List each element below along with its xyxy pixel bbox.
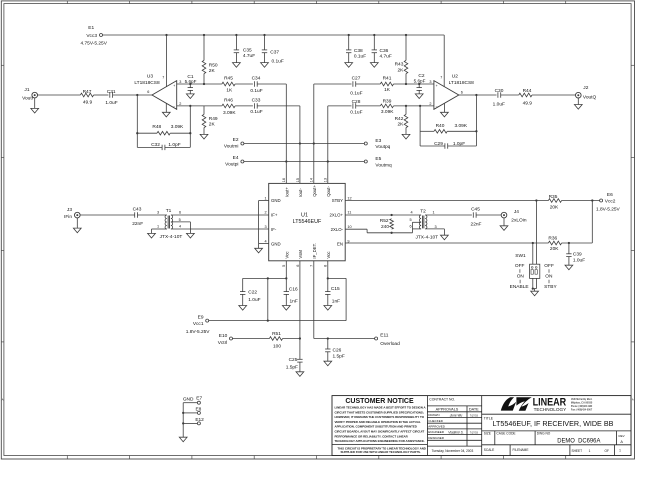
svg-text:Vcc: Vcc xyxy=(326,251,331,259)
svg-text:Vctrl: Vctrl xyxy=(218,340,228,346)
svg-text:C29: C29 xyxy=(434,141,443,147)
svg-text:R39: R39 xyxy=(383,98,392,104)
svg-text:1nF: 1nF xyxy=(332,298,340,304)
svg-text:HOWEVER, IT REMAINS THE CUSTOM: HOWEVER, IT REMAINS THE CUSTOMER’S RESPO… xyxy=(335,415,425,419)
svg-text:2K: 2K xyxy=(209,121,216,127)
svg-text:C39: C39 xyxy=(573,252,582,258)
svg-text:1.0pF: 1.0pF xyxy=(453,141,465,147)
svg-text:7/17/03: 7/17/03 xyxy=(470,414,479,417)
svg-text:1.0uF: 1.0uF xyxy=(105,100,117,106)
svg-text:DRAWN: DRAWN xyxy=(428,413,439,417)
svg-text:5.6pF: 5.6pF xyxy=(185,79,197,84)
svg-text:SHEET: SHEET xyxy=(572,449,583,453)
svg-text:0.1uF: 0.1uF xyxy=(350,90,362,96)
svg-text:0.1uF: 0.1uF xyxy=(272,58,284,64)
svg-text:E3: E3 xyxy=(375,138,381,144)
svg-text:OFF: OFF xyxy=(515,263,525,269)
svg-text:Vladimir S.: Vladimir S. xyxy=(448,431,464,435)
svg-text:100: 100 xyxy=(273,344,281,350)
svg-text:Vcc1: Vcc1 xyxy=(193,321,204,327)
svg-text:Iout-: Iout- xyxy=(298,188,303,197)
svg-text:PERFORMANCE OR RELIABILITY. C: PERFORMANCE OR RELIABILITY. CONTACT LINE… xyxy=(335,434,409,438)
svg-text:E1: E1 xyxy=(88,25,94,31)
svg-text:R52: R52 xyxy=(380,218,389,224)
svg-text:3: 3 xyxy=(429,80,431,84)
svg-text:E8: E8 xyxy=(195,407,201,413)
svg-text:LT1818CS8: LT1818CS8 xyxy=(134,80,160,86)
svg-text:EN: EN xyxy=(337,241,343,246)
svg-text:1.0uF: 1.0uF xyxy=(248,297,260,303)
svg-text:2: 2 xyxy=(179,102,181,106)
svg-text:E11: E11 xyxy=(380,332,389,338)
svg-text:R44: R44 xyxy=(523,88,532,94)
svg-text:R48: R48 xyxy=(152,124,161,130)
svg-text:E4: E4 xyxy=(233,155,239,161)
svg-text:1nF: 1nF xyxy=(290,298,298,304)
svg-text:APPROVED: APPROVED xyxy=(428,425,446,429)
svg-text:ON: ON xyxy=(517,273,525,279)
svg-text:VoutQ: VoutQ xyxy=(583,95,597,101)
svg-text:1: 1 xyxy=(589,449,591,453)
svg-text:49.9: 49.9 xyxy=(83,99,93,105)
svg-text:Voutmi: Voutmi xyxy=(224,144,239,150)
svg-text:E7: E7 xyxy=(196,396,202,402)
svg-text:R42: R42 xyxy=(395,116,404,122)
svg-text:E10: E10 xyxy=(219,333,228,339)
svg-text:DWG NO: DWG NO xyxy=(537,432,551,436)
svg-text:R36: R36 xyxy=(548,235,557,241)
svg-text:15: 15 xyxy=(296,178,300,182)
svg-text:3: 3 xyxy=(179,80,181,84)
svg-text:FILENAME: FILENAME xyxy=(513,448,529,452)
svg-text:13: 13 xyxy=(324,178,328,182)
svg-text:0.1uF: 0.1uF xyxy=(354,54,366,60)
svg-text:R45: R45 xyxy=(224,75,233,81)
svg-text:1.8V-5.25V: 1.8V-5.25V xyxy=(186,329,211,335)
svg-text:SCALE: SCALE xyxy=(484,448,494,452)
svg-text:JTX-4-10T: JTX-4-10T xyxy=(415,234,438,240)
svg-text:APPROVALS: APPROVALS xyxy=(436,408,459,412)
svg-text:E5: E5 xyxy=(375,156,381,162)
svg-text:1.8V-5.25V: 1.8V-5.25V xyxy=(596,206,621,212)
svg-text:+: + xyxy=(173,84,175,88)
svg-text:R49: R49 xyxy=(209,116,218,122)
svg-text:R46: R46 xyxy=(224,97,233,103)
svg-text:2XLO-: 2XLO- xyxy=(331,227,344,232)
svg-text:CIRCUIT THAT MEETS CUSTOMER-SU: CIRCUIT THAT MEETS CUSTOMER-SUPPLIED SPE… xyxy=(335,410,424,414)
svg-text:C26: C26 xyxy=(333,347,342,353)
svg-text:7/17/03: 7/17/03 xyxy=(470,431,479,434)
svg-text:20K: 20K xyxy=(550,246,559,252)
svg-text:R51: R51 xyxy=(272,331,281,337)
svg-text:22nF: 22nF xyxy=(132,221,143,227)
svg-text:C36: C36 xyxy=(380,48,389,54)
svg-text:C27: C27 xyxy=(352,75,361,81)
svg-text:C45: C45 xyxy=(471,207,480,213)
svg-text:CONTRACT NO.: CONTRACT NO. xyxy=(429,397,455,401)
svg-text:1.5pF: 1.5pF xyxy=(333,354,345,360)
svg-text:12: 12 xyxy=(347,196,351,200)
svg-text:GND: GND xyxy=(271,241,281,246)
svg-text:R47: R47 xyxy=(83,89,92,95)
svg-text:8: 8 xyxy=(324,265,328,267)
svg-text:J2: J2 xyxy=(583,85,588,91)
svg-text:−: − xyxy=(173,105,175,109)
svg-text:6: 6 xyxy=(296,265,300,267)
svg-text:LT5546EUF, IF RECEIVER, WIDE B: LT5546EUF, IF RECEIVER, WIDE BB xyxy=(493,419,614,428)
svg-text:4: 4 xyxy=(410,210,412,214)
svg-text:3: 3 xyxy=(434,225,436,229)
svg-text:1.0pF: 1.0pF xyxy=(168,142,180,148)
svg-text:June Wu: June Wu xyxy=(450,414,463,418)
svg-text:49.9: 49.9 xyxy=(523,100,533,106)
svg-text:2: 2 xyxy=(264,211,266,215)
svg-text:1K: 1K xyxy=(226,87,233,93)
svg-text:7: 7 xyxy=(162,75,164,79)
svg-text:U1: U1 xyxy=(301,213,308,219)
svg-text:Vcc2: Vcc2 xyxy=(605,198,616,204)
svg-text:DEMO DC696A: DEMO DC696A xyxy=(557,437,601,444)
svg-text:GND: GND xyxy=(183,396,194,402)
svg-text:C35: C35 xyxy=(243,48,252,54)
svg-text:VsM: VsM xyxy=(298,250,303,259)
svg-text:0.1uF: 0.1uF xyxy=(250,109,262,115)
svg-text:R40: R40 xyxy=(436,123,445,129)
svg-text:LINEAR TECHNOLOGY HAS MADE A B: LINEAR TECHNOLOGY HAS MADE A BEST EFFORT… xyxy=(335,406,427,410)
svg-text:Qout-: Qout- xyxy=(326,185,331,196)
svg-text:6: 6 xyxy=(179,211,181,215)
svg-text:Voutpi: Voutpi xyxy=(225,162,238,168)
svg-text:T1: T1 xyxy=(166,208,172,214)
svg-text:3: 3 xyxy=(264,225,266,229)
svg-text:ENGINEER: ENGINEER xyxy=(428,430,445,434)
svg-text:20K: 20K xyxy=(550,205,559,211)
svg-text:E9: E9 xyxy=(198,314,204,320)
svg-text:DESIGNER: DESIGNER xyxy=(428,436,445,440)
svg-text:3.09K: 3.09K xyxy=(223,110,236,116)
svg-text:C34: C34 xyxy=(252,75,261,81)
svg-text:2xLOin: 2xLOin xyxy=(511,217,527,223)
svg-text:1: 1 xyxy=(619,449,621,453)
svg-text:Overload: Overload xyxy=(380,341,400,347)
svg-text:5: 5 xyxy=(179,218,181,222)
svg-text:T2: T2 xyxy=(420,208,426,214)
svg-text:11: 11 xyxy=(347,211,351,215)
svg-text:2K: 2K xyxy=(398,121,405,127)
svg-text:IF-: IF- xyxy=(271,227,277,232)
svg-text:CAGE CODE: CAGE CODE xyxy=(496,432,515,436)
svg-text:2: 2 xyxy=(429,102,431,106)
svg-text:6: 6 xyxy=(461,90,463,94)
svg-text:ENABLE: ENABLE xyxy=(510,284,529,290)
svg-text:4.7uF: 4.7uF xyxy=(243,53,255,59)
svg-text:TECHNOLOGY: TECHNOLOGY xyxy=(534,407,567,412)
svg-text:A: A xyxy=(632,398,634,402)
svg-text:6: 6 xyxy=(147,90,149,94)
svg-text:Vcc: Vcc xyxy=(284,251,289,259)
svg-text:TECHNOLOGY APPLICATIONS ENGINE: TECHNOLOGY APPLICATIONS ENGINEERING FOR … xyxy=(335,439,425,443)
svg-text:1: 1 xyxy=(432,210,434,214)
svg-text:22nF: 22nF xyxy=(471,222,482,228)
svg-text:R41: R41 xyxy=(383,76,392,82)
svg-text:CIRCUIT BOARD LAYOUT MAY SIGNI: CIRCUIT BOARD LAYOUT MAY SIGNIFICANTLY A… xyxy=(335,430,425,434)
svg-text:OF: OF xyxy=(605,449,609,453)
svg-text:Qout+: Qout+ xyxy=(312,184,317,196)
svg-text:1: 1 xyxy=(264,196,266,200)
svg-text:C31: C31 xyxy=(107,89,116,95)
svg-text:7: 7 xyxy=(310,265,314,267)
svg-text:7: 7 xyxy=(440,75,442,79)
svg-text:1.5pF: 1.5pF xyxy=(286,364,298,370)
svg-text:Vcc3: Vcc3 xyxy=(86,33,97,39)
svg-text:J1: J1 xyxy=(24,87,29,93)
svg-text:STBY: STBY xyxy=(544,284,557,290)
svg-text:1K: 1K xyxy=(384,87,391,93)
svg-text:5.6pF: 5.6pF xyxy=(414,79,426,84)
svg-text:4: 4 xyxy=(179,225,181,229)
svg-text:APPLICATION. COMPONENT SUBSTIT: APPLICATION. COMPONENT SUBSTITUTION AND … xyxy=(335,425,417,429)
svg-text:C25: C25 xyxy=(289,357,298,363)
svg-text:C16: C16 xyxy=(289,287,298,293)
svg-text:3.09K: 3.09K xyxy=(381,109,394,115)
svg-text:Voutmq: Voutmq xyxy=(375,162,392,168)
svg-text:5: 5 xyxy=(282,265,286,267)
svg-text:C43: C43 xyxy=(133,206,142,212)
svg-text:R35: R35 xyxy=(549,194,558,200)
svg-text:SIZE: SIZE xyxy=(484,432,491,436)
svg-text:Tuesday, November 04, 2003: Tuesday, November 04, 2003 xyxy=(432,449,474,453)
svg-text:2K: 2K xyxy=(398,67,405,73)
svg-text:16: 16 xyxy=(282,178,286,182)
svg-text:CUSTOMER NOTICE: CUSTOMER NOTICE xyxy=(345,398,414,405)
svg-text:C28: C28 xyxy=(352,99,361,105)
svg-text:0.1uF: 0.1uF xyxy=(250,88,262,94)
svg-text:3.09K: 3.09K xyxy=(171,124,184,130)
svg-text:2K: 2K xyxy=(209,68,216,74)
svg-text:5: 5 xyxy=(409,218,411,222)
svg-text:240: 240 xyxy=(381,224,389,230)
svg-text:SW1: SW1 xyxy=(515,253,526,259)
svg-text:E2: E2 xyxy=(233,137,239,143)
svg-text:C32: C32 xyxy=(151,142,160,148)
svg-text:GND: GND xyxy=(271,198,281,203)
svg-text:SUPPLIED FOR USE WITH LINEAR T: SUPPLIED FOR USE WITH LINEAR TECHNOLOGY … xyxy=(341,450,421,454)
svg-text:C38: C38 xyxy=(354,48,363,54)
svg-text:IF_DET.: IF_DET. xyxy=(312,243,317,259)
svg-text:C33: C33 xyxy=(252,97,261,103)
svg-text:−: − xyxy=(436,105,438,109)
svg-text:4: 4 xyxy=(264,239,266,243)
svg-text:J4: J4 xyxy=(514,209,519,215)
svg-text:C37: C37 xyxy=(270,50,279,56)
svg-text:6: 6 xyxy=(409,225,411,229)
svg-text:OFF: OFF xyxy=(544,263,554,269)
svg-text:R50: R50 xyxy=(209,62,218,68)
svg-text:DATE: DATE xyxy=(469,408,479,412)
svg-text:4.75V-5.25V: 4.75V-5.25V xyxy=(80,41,107,47)
svg-text:A: A xyxy=(2,398,4,402)
svg-text:14: 14 xyxy=(310,178,314,182)
svg-text:CHECKED: CHECKED xyxy=(428,419,444,423)
svg-text:3.09K: 3.09K xyxy=(455,123,468,129)
svg-text:1.0uF: 1.0uF xyxy=(493,101,505,107)
svg-text:4.7uF: 4.7uF xyxy=(380,54,392,60)
svg-text:J3: J3 xyxy=(67,207,72,213)
svg-text:JTX-4-10T: JTX-4-10T xyxy=(160,234,183,240)
svg-text:VoutI: VoutI xyxy=(22,96,33,102)
svg-text:E12: E12 xyxy=(195,417,204,423)
svg-text:LT5546EUF: LT5546EUF xyxy=(293,219,322,225)
svg-text:0.1uF: 0.1uF xyxy=(350,110,362,116)
svg-text:Fax: (408)434-0507: Fax: (408)434-0507 xyxy=(571,407,593,411)
svg-text:E6: E6 xyxy=(607,192,613,198)
svg-text:Voutpq: Voutpq xyxy=(375,144,390,150)
svg-text:STBY: STBY xyxy=(332,198,343,203)
svg-text:LT1818CS8: LT1818CS8 xyxy=(449,80,475,86)
svg-text:C15: C15 xyxy=(331,286,340,292)
svg-text:1: 1 xyxy=(157,225,159,229)
svg-text:U2: U2 xyxy=(452,74,458,80)
svg-text:1.0uF: 1.0uF xyxy=(573,258,585,264)
svg-text:2XLO+: 2XLO+ xyxy=(330,213,344,218)
svg-text:R43: R43 xyxy=(395,62,404,68)
svg-text:U3: U3 xyxy=(147,74,153,80)
svg-text:C30: C30 xyxy=(495,88,504,94)
svg-text:IFin: IFin xyxy=(64,214,72,220)
svg-text:IF+: IF+ xyxy=(271,213,278,218)
svg-text:ON: ON xyxy=(545,273,553,279)
svg-text:VERIFY PROPER AND RELIABLE OPE: VERIFY PROPER AND RELIABLE OPERATION IN … xyxy=(335,420,421,424)
svg-text:10: 10 xyxy=(347,225,351,229)
svg-text:REV: REV xyxy=(619,434,625,438)
svg-text:3: 3 xyxy=(157,211,159,215)
svg-text:Iout+: Iout+ xyxy=(284,187,289,197)
svg-text:+: + xyxy=(436,84,438,88)
svg-text:C22: C22 xyxy=(248,289,257,295)
